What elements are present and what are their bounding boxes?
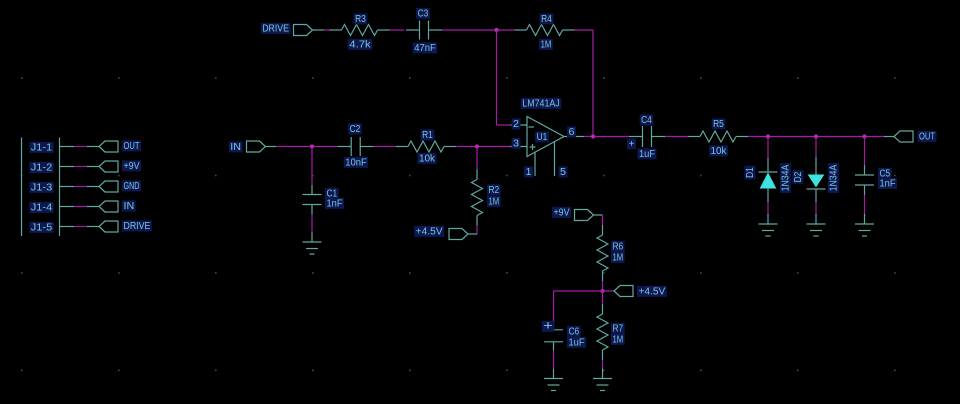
op-amp U1 plus mark [530,144,536,150]
svg-text:1: 1 [526,167,532,178]
label C1 name [325,188,339,199]
wire DRIVE flag lead [87,226,99,228]
resistor R7 [597,304,608,360]
label C1 value 1nF [325,198,344,209]
resistor R5 [688,131,748,142]
wire net N$DRIVE [324,29,332,31]
op-amp U1 minus mark [529,126,535,128]
label R2 value 1M [487,196,501,207]
svg-text:+: + [629,139,635,150]
capacitor C6 polarized [544,321,563,351]
wire corner to +4.5V flag [468,233,477,235]
svg-text:IN: IN [230,142,241,153]
label pin number 1 [524,166,533,177]
junction R2 tap [475,144,479,148]
wire OUT flag lead [87,146,99,148]
label U1 device LM741AJ [521,98,561,109]
label C4 name [640,114,654,125]
wire net IN at J1 [74,206,87,208]
wire net +9V at J1 [74,166,87,168]
label D2 name [792,170,804,184]
label net GND at J1 [122,180,141,191]
label net OUT [918,131,937,142]
wire C1 to ground [311,215,313,234]
capacitor C4 polarized [629,126,665,147]
svg-text:1nF: 1nF [880,179,896,190]
label C3 name [416,8,430,19]
label pin number 6 [567,126,576,137]
svg-text:R1: R1 [422,130,433,141]
svg-text:J1-3: J1-3 [31,183,53,194]
label pin number 3 [512,138,521,149]
svg-text:1M: 1M [541,40,552,51]
label net +4.5V at R2 [414,226,444,237]
junction D2 tap [814,134,818,138]
label C6 value 1uF [567,337,586,348]
op-amp U1 triangle [527,117,564,157]
wire down to D1 [767,137,769,159]
diode D1 anode lead [767,188,769,202]
wire C6 corner down [553,291,555,321]
diode D2 anode lead [815,189,817,202]
port flag DRIVE at J1 [99,221,118,232]
wire IN net to C2 [276,146,338,148]
label R7 value 1M [611,334,625,345]
svg-text:IN: IN [124,201,135,212]
svg-text:+4.5V: +4.5V [639,287,666,298]
label pin number 5 [559,166,568,177]
wire to op-amp pin 2 [497,124,511,126]
svg-text:C3: C3 [418,9,429,20]
label D1 value 1N34A [780,163,792,193]
svg-text:1M: 1M [613,253,624,264]
port flag +9V [575,210,594,221]
svg-text:R3: R3 [355,14,366,25]
svg-text:R6: R6 [613,242,624,253]
svg-text:1nF: 1nF [327,199,343,210]
svg-text:1N34A: 1N34A [829,164,840,191]
port flag OUT [894,131,913,142]
label C5 name [878,168,892,179]
diode D1 cathode bar [759,171,778,173]
label C3 value 47nF [413,42,437,53]
svg-text:10nF: 10nF [345,158,366,169]
svg-text:OUT: OUT [124,141,140,152]
wire +9V flag lead [87,166,99,168]
diode D2 cathode lead top [815,157,817,175]
svg-text:R7: R7 [613,324,624,335]
wire DRIVE flag lead [313,29,325,31]
svg-text:C2: C2 [350,124,361,135]
svg-text:+9V: +9V [124,161,140,172]
svg-text:J1-4: J1-4 [31,203,53,214]
diode D2 triangle [809,175,824,187]
op-amp U1 pin 1 lead [534,152,536,177]
wire R7 to ground [602,360,604,369]
wire R2 to +4.5V corner [476,226,478,235]
label C2 value 10nF [344,157,368,168]
label D2 value 1N34A [828,163,840,193]
label net OUT at J1 [122,140,141,151]
svg-text:GND: GND [124,181,140,192]
port flag IN [247,141,266,152]
port flag +9V at J1 [99,161,118,172]
wire R5 to OUT flag [748,136,884,138]
wire junction down to R2 [476,147,478,170]
svg-text:J1-2: J1-2 [31,163,53,174]
label R1 name [421,129,435,140]
wire down to D2 [815,137,817,158]
wire net DRIVE at J1 [74,226,87,228]
svg-text:R5: R5 [713,119,724,130]
wire R6 to node [602,281,604,291]
wire down to C5 [864,137,866,166]
op-amp U1 pin 5 lead [554,142,556,177]
svg-text:10k: 10k [419,154,436,165]
wire +9V flag lead [594,214,603,216]
label R6 name [611,241,625,252]
wire feedback right vertical [592,30,594,137]
wire IN flag lead [266,146,277,148]
wire R3 to C3 [390,29,405,31]
label R7 name [611,323,625,334]
label R4 value 1M [539,39,553,50]
svg-text:1uF: 1uF [639,149,655,160]
wire GND flag lead [87,186,99,188]
connector J1 right bar [59,138,61,237]
ground below D1 [759,214,778,236]
ground below R7 [593,369,612,391]
wire R1 to op-amp pin 3 [456,146,510,148]
op-amp U1 pin 2 lead [510,124,527,126]
label net +9V [552,207,571,218]
port flag +4.5V at R2 [449,229,468,240]
svg-text:C4: C4 [641,115,652,126]
resistor R3 [330,25,390,36]
wire D2 to ground [815,202,817,216]
label U1 name [535,131,549,142]
connector J1 pin J1-2 stub [60,166,75,168]
junction top feedback node [494,28,498,32]
label pin J1-3 [29,182,53,193]
resistor R2 [472,170,483,226]
connector J1 pin J1-4 stub [60,206,75,208]
label R3 value 4.7k [348,39,372,50]
label R4 name [540,13,554,24]
wire R4 to corner [575,29,594,31]
svg-text:D1: D1 [745,167,756,178]
capacitor C2 [338,137,374,156]
ground below C6 [544,369,563,391]
junction feedback to output [591,134,595,138]
svg-text:+: + [543,318,553,333]
wire C6 to ground [553,351,555,369]
svg-text:DRIVE: DRIVE [124,221,151,232]
wire node left to C6 [554,290,603,292]
label R3 name [354,13,368,24]
wire node down to R7 [602,291,604,304]
op-amp U1 pin 3 lead [510,146,527,148]
svg-text:R4: R4 [541,14,552,25]
label C6 plus mark [542,321,555,332]
port flag +4.5V node [614,286,633,297]
wire C2 to R1 [374,146,396,148]
svg-text:1uF: 1uF [569,338,585,349]
wire C4 to R5 [665,136,688,138]
resistor R6 [597,225,608,281]
wire D1 to ground [767,202,769,216]
wire IN flag lead [87,206,99,208]
svg-text:1M: 1M [489,197,500,208]
svg-text:D2: D2 [793,171,804,182]
label net +4.5V node [637,286,667,297]
label pin number 2 [512,118,521,129]
connector J1 pin J1-1 stub [60,146,75,148]
capacitor C1 [303,185,322,215]
diode D1 triangle [761,174,776,189]
wire feedback left vertical [496,30,498,125]
label net DRIVE at J1 [122,220,152,231]
label C2 name [348,123,362,134]
label C4 value 1uF [638,148,657,159]
connector J1 pin J1-3 stub [60,186,75,188]
label net DRIVE [261,23,291,34]
ground below C1 [303,232,322,254]
svg-text:OUT: OUT [919,132,935,143]
wire node to +4.5V flag [603,290,615,292]
diode D2 cathode bar [807,188,826,190]
junction +4.5V node [600,289,604,293]
svg-text:3: 3 [513,139,519,150]
svg-text:2: 2 [513,119,519,130]
wire net GND at J1 [74,186,87,188]
label R1 value 10k [418,153,437,164]
wire OUT flag lead [884,136,894,138]
op-amp U1 output pin 6 lead [564,136,584,138]
svg-text:C6: C6 [569,327,580,338]
resistor R4 [515,25,575,36]
wire junction down to C1 [311,147,313,185]
port flag OUT at J1 [99,141,118,152]
label net IN at J1 [122,200,136,211]
port flag IN at J1 [99,201,118,212]
capacitor C3 [406,21,442,40]
label C5 value 1nF [878,178,897,189]
junction C1 tap [310,144,314,148]
label pin J1-2 [29,162,53,173]
svg-text:5: 5 [560,167,566,178]
svg-text:+9V: +9V [554,208,570,219]
svg-text:1N34A: 1N34A [781,164,792,191]
label net +9V at J1 [122,160,141,171]
label pin J1-1 [29,142,53,153]
ground below C5 [855,214,874,236]
svg-text:+4.5V: +4.5V [416,227,443,238]
label C4 plus mark [627,138,636,149]
wire C3 to junction [442,29,497,31]
svg-text:J1-5: J1-5 [31,223,53,234]
label R5 value 10k [709,145,728,156]
svg-text:47nF: 47nF [414,43,435,54]
ground below D2 [807,214,826,236]
svg-text:10k: 10k [711,146,728,157]
junction D1 tap [766,134,770,138]
label D1 name [744,166,756,180]
label pin J1-5 [29,222,53,233]
label C6 name [567,326,581,337]
label pin J1-4 [29,202,53,213]
svg-text:DRIVE: DRIVE [262,24,289,35]
wire op-amp output to C4 [584,136,630,138]
label net IN [229,141,243,152]
resistor R1 [396,141,456,152]
diode D1 cathode lead [767,158,769,172]
svg-text:4.7k: 4.7k [349,40,372,51]
svg-text:1M: 1M [613,335,624,346]
junction C5 tap [862,134,866,138]
port flag DRIVE [294,25,313,36]
connector J1 pin J1-5 stub [60,226,75,228]
svg-text:6: 6 [569,127,575,138]
svg-text:R2: R2 [489,185,500,196]
capacitor C5 [855,165,874,195]
svg-text:J1-1: J1-1 [31,143,53,154]
label R5 name [712,118,726,129]
wire +9V corner down [602,215,604,226]
wire C5 to ground [864,195,866,216]
wire net OUT at J1 [74,146,87,148]
wire junction to R4 [497,29,515,31]
port flag GND at J1 [99,181,118,192]
svg-text:LM741AJ: LM741AJ [522,99,559,110]
connector J1 left bar [21,138,23,237]
label R2 name [487,184,501,195]
svg-text:U1: U1 [537,132,548,143]
label R6 value 1M [611,252,625,263]
